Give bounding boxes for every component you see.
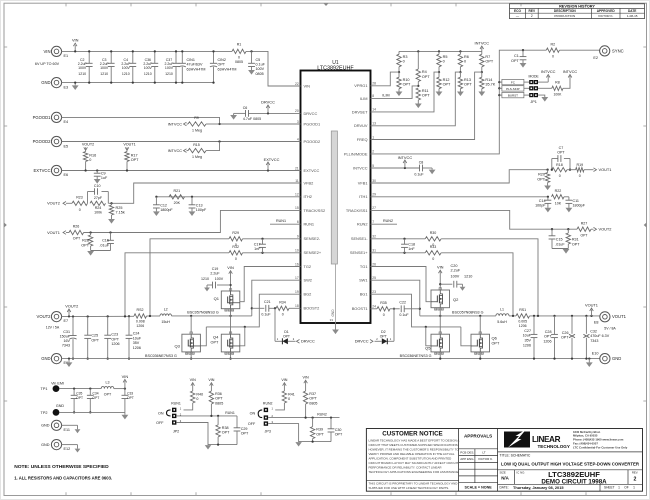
svg-text:VIN: VIN [437,264,444,269]
wire L1 to RS1 [509,315,516,317]
svg-text:DRVCC: DRVCC [301,339,315,344]
wire SW1 rail [420,315,496,317]
svg-text:OPT: OPT [422,94,430,98]
wire RUN2 net from JP3 pin 2 [268,417,339,419]
node VOUT1 arrow output [590,315,592,317]
svg-text:100V: 100V [451,274,460,278]
svg-text:2: 2 [372,150,374,154]
svg-text:OPT: OPT [218,63,226,67]
svg-text:R6: R6 [464,55,469,59]
svg-text:MODE: MODE [529,75,540,79]
svg-text:1210: 1210 [201,277,209,281]
svg-text:7343: 7343 [62,344,70,348]
svg-text:PGOOD2: PGOOD2 [33,139,52,144]
connector E3 GND [51,78,61,88]
svg-text:E10: E10 [592,352,599,356]
capacitor C11 1800pF [564,196,569,198]
svg-text:R26: R26 [73,225,80,229]
svg-text:100V: 100V [144,66,153,70]
svg-text:RUN1: RUN1 [304,222,315,227]
svg-text:BSC036NE7NS3 G: BSC036NE7NS3 G [145,354,177,358]
svg-text:SENSE2-: SENSE2- [304,236,321,241]
wire VFB1 pin 30 [371,170,548,183]
svg-text:C30: C30 [335,428,342,432]
svg-text:GND: GND [41,424,50,428]
svg-text:ON: ON [158,411,164,415]
svg-text:R31: R31 [572,238,579,242]
svg-text:0: 0 [552,54,554,58]
svg-text:R40: R40 [196,392,203,396]
transistor Q2 BSC057N08NS3 [431,290,450,308]
svg-text:LTC3892EUHF: LTC3892EUHF [317,66,354,72]
svg-text:OPT: OPT [464,83,472,87]
svg-text:BG2: BG2 [304,292,312,297]
svg-text:3: 3 [297,120,299,124]
svg-text:TP1: TP1 [41,387,48,391]
svg-text:1210: 1210 [144,72,152,76]
svg-text:100V: 100V [256,67,265,71]
capacitor C31 150uF 16V 7343 [72,315,74,317]
svg-text:RUN2: RUN2 [383,219,393,223]
wire JP3 pin 3 to ground [268,424,331,442]
svg-text:31: 31 [372,249,376,253]
svg-text:VOUT1: VOUT1 [585,303,598,308]
resistor R39 OPT [312,418,314,427]
svg-text:29: 29 [372,193,376,197]
svg-text:R28: R28 [82,239,89,243]
capacitor C20 2.2uF 100V 1210 [439,283,441,285]
wire Q3 Q4 sources to gnd rail [190,352,192,359]
svg-text:INTVCC: INTVCC [563,69,578,74]
svg-text:1206: 1206 [111,342,119,346]
wire PLLIN/MODE pin 2 to SYNC line [371,50,547,154]
frame zone ticks top [65,3,67,6]
capacitor C25 OPT [87,315,89,317]
resistor R37 OPT 0805 [303,391,307,404]
svg-text:R4: R4 [422,70,427,74]
svg-text:18: 18 [295,304,299,308]
resistor R20 OPT [547,170,549,173]
svg-text:GND: GND [41,80,50,85]
svg-text:E11: E11 [64,428,70,432]
svg-text:IC NO.: IC NO. [517,470,526,474]
svg-text:OPT: OPT [537,178,545,182]
svg-text:NOTE: UNLESS OTHERWISE SPECIFI: NOTE: UNLESS OTHERWISE SPECIFIED [14,464,109,470]
test point TP1 Vin EMI [53,385,60,392]
svg-text:REV: REV [529,9,536,13]
svg-text:0805: 0805 [256,72,264,76]
capacitor C3 2.2uF [110,51,112,63]
svg-text:SIZE: SIZE [500,470,506,474]
svg-text:20: 20 [295,109,299,113]
svg-text:BOOST2: BOOST2 [304,306,320,311]
svg-text:2.2uF: 2.2uF [210,272,220,276]
svg-text:VIN: VIN [227,265,234,270]
wire DRVCC pin 20 [234,112,246,114]
svg-text:E1: E1 [64,54,69,58]
svg-text:DRVCC: DRVCC [304,111,318,116]
capacitor C9 1uF [96,169,98,171]
resistor R19 0 [567,169,576,171]
svg-text:VERIFY PROPER AND RELIABLE OPE: VERIFY PROPER AND RELIABLE OPERATION IN … [369,452,455,456]
svg-text:VIN: VIN [303,375,309,379]
resistor R14 35.7K [481,71,483,73]
svg-text:R35: R35 [380,301,387,305]
ground track network [91,250,111,252]
svg-text:GND: GND [41,443,50,447]
svg-text:C8: C8 [419,160,424,164]
svg-text:RUN1: RUN1 [276,219,286,223]
U1 ground pin 33 arrow [335,323,337,330]
svg-text:R36: R36 [215,392,222,396]
node VOUT2 arrow right [591,228,594,230]
resistor R29 0 [229,237,243,241]
svg-text:R21: R21 [174,189,181,193]
transistor Q3 BSC036NE7NS3 [182,334,201,352]
svg-text:Q2: Q2 [453,297,459,302]
svg-text:SENSE1+: SENSE1+ [350,250,368,255]
svg-text:8: 8 [372,94,374,98]
svg-text:47uF/63V: 47uF/63V [187,63,203,67]
svg-text:VOUT1: VOUT1 [612,314,627,319]
wire ITH1 pin 29 [371,196,548,198]
svg-text:R33: R33 [430,245,437,249]
capacitor C36 2.2uF [154,51,156,63]
capacitor C24 10uF 35V 1206 [128,315,130,317]
svg-text:100V: 100V [78,66,87,70]
resistor R6 0 [459,51,461,54]
svg-text:PGOOD1: PGOOD1 [304,121,321,126]
svg-text:R29: R29 [232,231,239,235]
svg-text:TECHNOLOGY: TECHNOLOGY [538,444,570,449]
svg-text:R23: R23 [76,195,83,199]
capacitor C7 OPT [551,159,553,170]
revision history table [510,4,645,19]
svg-text:INTVCC: INTVCC [541,69,556,74]
resistor R33 0 [425,251,441,255]
svg-text:R1: R1 [237,43,242,47]
svg-text:0: 0 [464,60,466,64]
capacitor C37 2.2uF [175,51,177,63]
wire EMI top rail [59,388,101,390]
connector E6 EXTVCC [51,165,61,175]
node VIN arrow top-left [74,45,76,51]
svg-text:OPT: OPT [544,335,552,339]
svg-text:TG1: TG1 [360,264,368,269]
svg-text:0: 0 [282,313,284,317]
svg-text:VIN: VIN [122,374,129,379]
svg-text:LT: LT [482,450,485,454]
svg-text:VICTOR K.: VICTOR K. [478,457,493,461]
wire SW1 from pin 25 [371,280,420,316]
svg-text:OFF: OFF [248,422,256,426]
svg-text:LINEAR: LINEAR [532,435,561,444]
svg-text:TECHNOLOGY APPLICATIONS ENGINE: TECHNOLOGY APPLICATIONS ENGINEERING FOR … [369,470,460,474]
wire SENSE1+ pin 31 [371,252,426,254]
resistor R4 OPT [417,51,419,69]
capacitor C34 OPT [89,387,91,389]
svg-text:0: 0 [403,60,405,64]
svg-text:OPT: OPT [557,151,565,155]
node INTVCC arrow top [481,48,483,52]
svg-text:24: 24 [372,305,376,309]
svg-text:APPROVALS: APPROVALS [464,433,492,438]
svg-text:Q1: Q1 [214,296,220,301]
svg-text:0.1uF: 0.1uF [414,173,424,177]
svg-text:32: 32 [372,235,376,239]
svg-text:1. ALL RESISTORS AND CAPACITO: 1. ALL RESISTORS AND CAPACITORS ARE 0603… [14,476,112,481]
svg-text:ECO: ECO [514,9,521,13]
svg-text:GND: GND [56,404,65,408]
wire FREQ pin 1 [371,72,482,139]
svg-text:C27: C27 [524,329,531,333]
svg-text:RUN1: RUN1 [171,402,181,406]
wire GND rail input [62,82,214,84]
svg-text:OPT: OPT [127,396,134,400]
svg-text:VIN: VIN [44,49,51,54]
svg-text:C24: C24 [133,332,140,336]
svg-text:13: 13 [372,122,376,126]
svg-text:C22: C22 [399,301,406,305]
jumper JP1 mode select block [498,81,500,83]
svg-text:LINEAR TECHNOLOGY HAS MADE A B: LINEAR TECHNOLOGY HAS MADE A BEST EFFORT… [369,438,460,442]
svg-text:7: 7 [372,220,374,224]
ground left of C6 [233,113,235,115]
node VIN arrow EMI [124,387,126,389]
connector E10 GND [600,354,610,364]
svg-text:1: 1 [618,486,620,490]
wire DRVUV pin 13 [371,72,461,126]
svg-text:11: 11 [295,179,299,183]
inductor L1 5.6uH [496,314,509,316]
svg-text:BSC057N08NS3 G: BSC057N08NS3 G [452,311,484,315]
wire VFB2 [108,183,300,203]
svg-text:OF: OF [624,486,628,490]
wire BG1 to Q5 Q6 gates [371,294,461,327]
svg-text:OPT: OPT [380,335,387,339]
svg-text:R9: R9 [194,116,199,120]
svg-text:OPT: OPT [76,396,83,400]
svg-text:C11: C11 [573,199,579,203]
resistor R32 0 [229,251,243,255]
wire EMI bottom rail [59,411,125,413]
svg-text:R5: R5 [443,55,448,59]
svg-text:C34: C34 [93,391,99,395]
svg-text:OPT: OPT [241,432,249,436]
svg-text:REV.: REV. [632,470,638,474]
svg-text:L3: L3 [106,380,110,384]
svg-text:16V: 16V [63,339,70,343]
node VOUT2 arrow output [68,315,70,317]
ground JP1 bottom pin [538,95,545,97]
capacitor C32 470uF 6.3V 7343 [585,315,587,317]
wire SENSE1+ to RS1 [441,253,513,316]
svg-text:R38: R38 [222,426,229,430]
svg-text:VFB1: VFB1 [358,180,368,185]
svg-text:BG1: BG1 [360,292,368,297]
svg-text:SW2: SW2 [304,278,312,283]
wire SENSE1- to VOUT1 rail [441,239,538,316]
svg-text:EXTVCC: EXTVCC [304,168,320,173]
wire VPRG1 pin 28 [371,72,400,86]
wire BG2 to Q3 Q4 gates [206,294,300,327]
svg-text:TRACK/SS2: TRACK/SS2 [304,208,326,213]
wire VOUT2 rail [62,315,134,317]
svg-text:APP ENG.: APP ENG. [460,457,474,461]
svg-text:.01uF: .01uF [555,242,565,246]
svg-text:1210: 1210 [464,274,472,278]
connector E4 PGOOD1 [51,112,61,122]
svg-text:R3: R3 [403,55,408,59]
svg-text:6: 6 [297,220,299,224]
capacitor C1 OPT [522,49,524,51]
svg-text:C33: C33 [127,391,133,395]
capacitor C5 0.1uF 100V 0805 [250,50,252,52]
svg-text:BOOST1: BOOST1 [352,306,368,311]
svg-text:OPT: OPT [422,75,430,79]
wire TG2 to Q1 gate [240,267,301,302]
capacitor C18 1nF [403,238,405,240]
svg-text:VOUT2: VOUT2 [82,143,94,147]
svg-text:OPT: OPT [309,397,317,401]
wire SW2 from pin 17 [252,280,301,316]
svg-text:27pF: 27pF [94,196,103,200]
capacitor C22 0.1uF [393,308,395,310]
svg-text:C18: C18 [408,242,415,246]
svg-text:RUN1: RUN1 [225,411,235,415]
svg-text:0.1uF: 0.1uF [256,63,266,67]
wire TRACK/SS2 [84,210,301,232]
svg-text:CIN1: CIN1 [187,58,195,62]
svg-text:100V: 100V [122,66,131,70]
wire JP2 pin 3 to ground [176,423,237,445]
svg-text:VIN: VIN [281,378,287,382]
svg-text:21: 21 [295,166,299,170]
wire SENSE1- pin 32 [371,238,426,240]
svg-text:0.008: 0.008 [136,319,145,323]
svg-text:TG2: TG2 [304,264,312,269]
ground JP3 [295,442,301,446]
svg-text:63HVH47M: 63HVH47M [187,67,206,71]
resistor R35 0 [371,308,378,310]
svg-text:10: 10 [295,249,299,253]
svg-text:E5: E5 [64,144,69,148]
svg-text:C15: C15 [556,238,563,242]
svg-text:RS1: RS1 [519,308,526,312]
svg-text:SENSE1-: SENSE1- [351,236,368,241]
svg-text:R25: R25 [116,206,123,210]
svg-text:R34: R34 [279,300,286,304]
svg-text:INTVCC: INTVCC [168,122,183,126]
svg-text:1800pF: 1800pF [160,208,173,212]
svg-text:12: 12 [295,193,299,197]
wire R2 to SYNC connector [559,49,599,51]
svg-text:R14: R14 [485,78,492,82]
test point TP2 GND [53,409,60,416]
wire RS2 to L2 [147,315,161,317]
diode D1 OPT bootstrap ch2 [274,307,276,309]
svg-text:0: 0 [559,174,561,178]
svg-text:ILIM: ILIM [382,93,389,97]
svg-text:35.7K: 35.7K [485,83,495,87]
svg-text:OPT: OPT [93,396,100,400]
svg-text:C25: C25 [91,334,98,338]
transistor Q5 BSC036NE7NS3 [431,334,450,352]
svg-text:BSC036NE7NS3 G: BSC036NE7NS3 G [400,354,432,358]
svg-text:CUSTOMER NOTICE: CUSTOMER NOTICE [382,431,442,438]
svg-text:EXTVCC: EXTVCC [264,157,280,162]
resistor R17 OPT [125,152,129,162]
svg-text:SENSE2+: SENSE2+ [304,250,322,255]
svg-text:1210: 1210 [78,72,86,76]
svg-text:PLS-SKIP: PLS-SKIP [506,87,520,91]
wire R1 to VIN pin 22 [246,51,301,86]
svg-text:D2: D2 [381,330,386,334]
svg-text:23: 23 [372,290,376,294]
svg-text:R39: R39 [316,428,323,432]
svg-text:0: 0 [579,174,581,178]
svg-text:0: 0 [238,56,240,60]
svg-text:63HVH47M: 63HVH47M [218,67,237,71]
capacitor C4 2.2uF [132,51,134,63]
node RUN2 stub pin 7 [371,223,398,225]
svg-text:R19: R19 [577,163,584,167]
resistor RS1 0.005 1206 [516,314,530,318]
svg-text:E8: E8 [594,321,599,325]
svg-text:OPT: OPT [511,59,519,63]
capacitor C15 .01uF [551,229,553,236]
svg-text:E6: E6 [64,173,69,177]
svg-text:R15: R15 [193,143,200,147]
capacitor C21 0.1uF [252,307,264,309]
U1 exposed pad [331,131,337,264]
svg-text:E3: E3 [64,85,69,89]
title rows [498,451,643,453]
svg-text:10K: 10K [555,201,562,205]
svg-text:LTC Confidential-For Customer: LTC Confidential-For Customer Use Only [573,445,628,449]
connector E8 VOUT1 [600,312,610,322]
svg-text:15uH: 15uH [161,320,170,324]
wire ITH2 [156,196,300,198]
svg-text:7.15k: 7.15k [116,211,125,215]
svg-text:TP2: TP2 [41,411,48,415]
svg-text:Thursday, January 08, 2015: Thursday, January 08, 2015 [513,485,564,490]
svg-text:Q4: Q4 [213,335,219,340]
svg-text:PERFORMANCE OR RELIABILITY. C: PERFORMANCE OR RELIABILITY. CONTACT LINE… [369,466,442,470]
svg-text:L2: L2 [164,308,168,312]
svg-text:C35: C35 [76,391,82,395]
inductor L2 15uH [160,314,172,316]
svg-text:0: 0 [235,257,237,261]
svg-text:OPT: OPT [581,233,588,237]
svg-text:E4: E4 [64,120,69,124]
svg-text:DRVCC: DRVCC [355,339,369,344]
svg-text:SW1: SW1 [359,278,367,283]
svg-text:R7: R7 [485,55,490,59]
svg-text:16: 16 [295,262,299,266]
connector E5 PGOOD2 [51,136,61,146]
capacitor CIN1 47uF/63V [181,51,183,63]
svg-text:2.2uF: 2.2uF [451,269,461,273]
node RUN1 stub pin 6 [270,223,301,225]
svg-text:C29: C29 [241,427,248,431]
svg-text:INTVCC: INTVCC [168,149,183,153]
svg-text:C5: C5 [256,58,261,62]
svg-text:1206: 1206 [523,343,531,347]
resistor R18 0 [552,168,567,172]
svg-text:PLLIN/MODE: PLLIN/MODE [344,151,368,156]
capacitor C26 OPT [571,315,573,317]
